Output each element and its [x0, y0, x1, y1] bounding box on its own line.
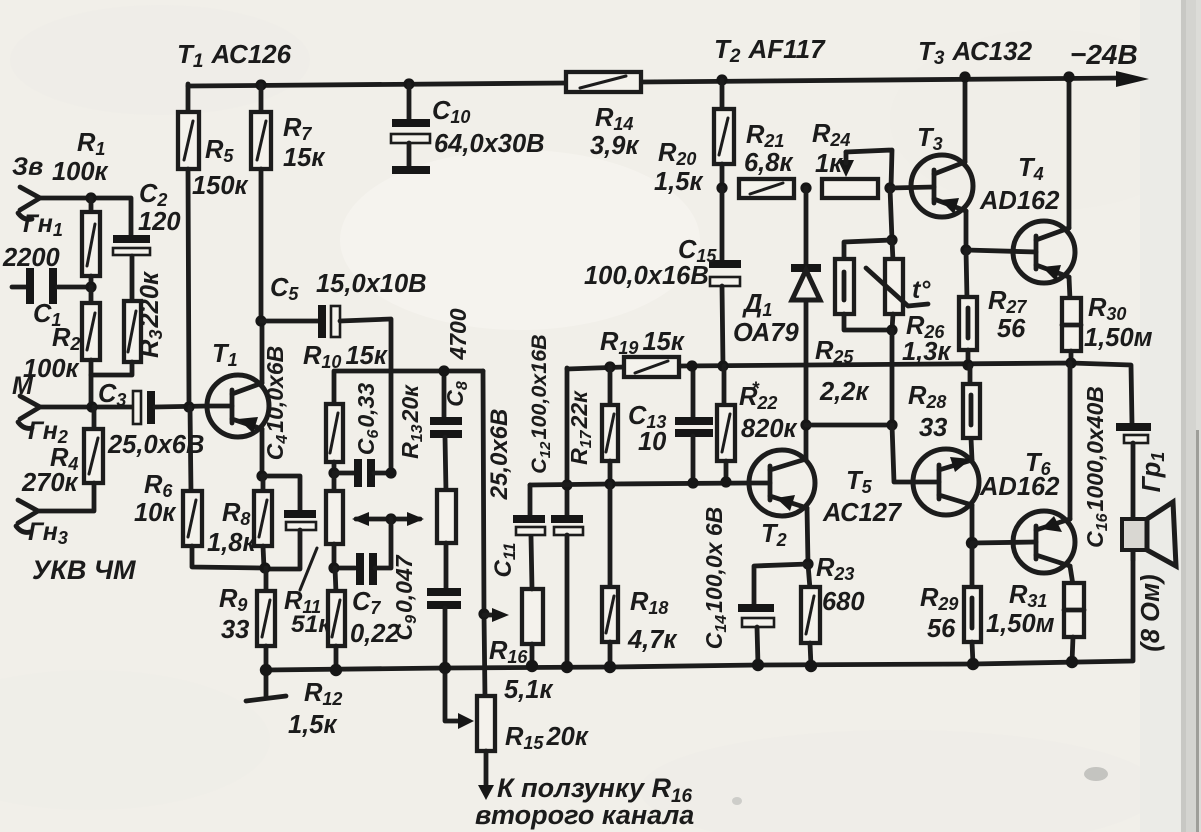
resistor R23	[801, 564, 820, 666]
node: junction R1 top	[85, 192, 96, 203]
wire: mid feedback bus	[567, 367, 624, 369]
svg-text:R1015к: R1015к	[303, 342, 388, 372]
wire: T2 emitter down	[807, 508, 808, 564]
svg-text:4700: 4700	[445, 308, 471, 360]
node: junction C13 bottom	[687, 477, 698, 488]
node: rail junction T4	[1063, 71, 1074, 82]
svg-text:10к: 10к	[134, 499, 176, 527]
wire: bias chain to T2 collector	[890, 330, 895, 425]
svg-text:1,50м: 1,50м	[986, 610, 1055, 638]
node: junction R24/T3 base	[884, 182, 895, 193]
svg-text:второго канала: второго канала	[475, 800, 694, 830]
node: junction C15/R22/bus	[717, 360, 728, 371]
resistor R28	[963, 365, 980, 438]
node: junction R16 wiper	[478, 608, 489, 619]
node: junction C13 top	[686, 360, 697, 371]
node: bus junction R9	[260, 664, 272, 676]
capacitor C14	[738, 564, 808, 665]
node: junction collector T1 / C5	[255, 315, 266, 326]
resistor R10	[326, 371, 483, 473]
resistor R5	[178, 84, 199, 407]
capacitor C5	[261, 305, 391, 473]
node: bus junction R27/R28	[962, 359, 973, 370]
resistor R24 (rheostat)	[822, 150, 892, 198]
input jack Gn1	[18, 187, 40, 219]
svg-text:15к: 15к	[283, 144, 325, 172]
svg-text:2200: 2200	[2, 244, 60, 272]
svg-text:120: 120	[138, 208, 181, 236]
svg-text:3,9к: 3,9к	[590, 132, 639, 160]
capacitor C15	[709, 188, 741, 366]
svg-text:t°: t°	[912, 276, 931, 304]
capacitor C6	[334, 459, 391, 487]
resistor R8	[254, 476, 272, 568]
node: junction R17 top	[604, 361, 615, 372]
svg-text:М: М	[12, 372, 34, 400]
wire: Gn2 to C3	[40, 405, 133, 410]
node: rail junction R20	[716, 74, 727, 85]
svg-text:33: 33	[919, 414, 947, 442]
resistor R9	[257, 568, 275, 670]
potentiometer R11	[326, 473, 343, 568]
svg-text:R1320к: R1320к	[397, 384, 426, 459]
svg-text:4,7к: 4,7к	[627, 626, 677, 654]
svg-text:1,5к: 1,5к	[654, 168, 703, 196]
node: bus junction R18	[604, 661, 616, 673]
svg-text:1,8к: 1,8к	[207, 529, 256, 557]
svg-text:С60,33: С60,33	[353, 383, 382, 456]
node: junction T3 emitter / T4 base	[960, 244, 971, 255]
wire: to T5 base	[892, 425, 913, 482]
node: junction wiper line	[385, 513, 396, 524]
svg-text:АС127: АС127	[822, 499, 903, 527]
wire: Gn1 to R1/C2	[40, 198, 131, 235]
node: junction C12/base wire	[561, 479, 572, 490]
transistor T5	[913, 449, 979, 515]
svg-text:56: 56	[997, 315, 1026, 343]
potentiometer R15	[477, 696, 495, 800]
wire: T4 collector to rail	[1067, 77, 1072, 228]
leader line R11	[300, 548, 317, 590]
node: bus junction R29	[967, 658, 979, 670]
svg-text:820к: 820к	[741, 415, 798, 443]
node: bus junction C12	[561, 661, 573, 673]
node: junction R10/R11/C6	[328, 467, 339, 478]
speaker Gr1	[1122, 502, 1176, 566]
resistor R18	[602, 484, 618, 667]
wire: T1 emitter down	[260, 429, 265, 476]
capacitor C3	[133, 391, 207, 424]
wire: T1 collector up	[260, 321, 265, 383]
resistor R2	[82, 287, 100, 407]
node: rail junction R7	[255, 79, 266, 90]
node: junction M line	[86, 401, 97, 412]
node: bus junction C14	[752, 659, 764, 671]
wire: ground bus bottom	[266, 550, 1133, 670]
node: junction R1/R2/C1	[85, 281, 96, 292]
resistor R21	[739, 179, 794, 198]
node: junction R21/R24/D1	[800, 182, 811, 193]
svg-text:64,0х30В: 64,0х30В	[434, 130, 545, 158]
node: junction emitter T1	[256, 470, 267, 481]
svg-text:15,0х10В: 15,0х10В	[316, 270, 427, 298]
capacitor C2	[113, 239, 150, 255]
svg-text:С90,047: С90,047	[391, 554, 420, 640]
resistor R31	[1064, 566, 1084, 662]
node: bus junction R31	[1066, 656, 1078, 668]
node: junction R22 bottom	[720, 476, 731, 487]
svg-text:270к: 270к	[21, 469, 79, 497]
input jack Gn2	[18, 396, 40, 428]
capacitor C10	[391, 84, 430, 170]
-24V arrowhead	[1116, 71, 1149, 87]
node: junction R25/R26 top	[886, 234, 897, 245]
node: junction R17/R18/base wire	[604, 478, 615, 489]
wire: T5 collector down	[970, 505, 975, 543]
capacitor C8	[430, 371, 462, 492]
node: junction bias/T5 base	[886, 419, 897, 430]
wire: R16 feed line	[483, 371, 485, 698]
svg-text:−24В: −24В	[1070, 39, 1138, 70]
resistor R30	[1062, 277, 1081, 363]
svg-text:АD162: АD162	[979, 473, 1059, 501]
capacitor C7	[334, 519, 391, 585]
svg-text:УКВ ЧМ: УКВ ЧМ	[32, 555, 136, 585]
capacitor C12	[551, 368, 583, 667]
svg-text:1к: 1к	[815, 150, 843, 178]
bias chain R25/R26	[890, 188, 892, 240]
svg-text:150к: 150к	[192, 172, 249, 200]
svg-text:ОА79: ОА79	[733, 319, 799, 347]
wiper arrow R15 from bus	[445, 668, 474, 729]
wire: T2 collector up	[804, 425, 809, 459]
svg-text:(8 Ом): (8 Ом)	[1137, 574, 1165, 651]
thermistor R26	[866, 240, 928, 330]
node: rail junction C10	[403, 78, 414, 89]
resistor R1	[82, 198, 100, 289]
transistor T4	[966, 221, 1075, 283]
resistor R6	[183, 407, 264, 568]
svg-text:25,0х6В: 25,0х6В	[486, 409, 513, 501]
node: bus junction C9/R15	[439, 662, 451, 674]
wiper arrow R16	[484, 608, 509, 622]
node: junction T5 collector / T6 base	[966, 537, 978, 549]
resistor R29	[964, 543, 981, 664]
node: junction base T1	[183, 401, 194, 412]
node: junction C8 top	[438, 365, 449, 376]
svg-text:2,2к: 2,2к	[819, 378, 869, 406]
diode D1	[791, 188, 821, 425]
capacitor C13	[675, 366, 713, 483]
node: bus junction R23	[805, 660, 817, 672]
svg-text:1,3к: 1,3к	[902, 338, 951, 366]
capacitor C4	[262, 476, 316, 569]
node: junction R20/R21/C15	[716, 182, 727, 193]
ground chassis symbol	[246, 670, 286, 701]
capacitor C9	[427, 592, 461, 668]
node: junction R11/C7/R12	[328, 562, 339, 573]
potentiometer R16	[522, 536, 543, 666]
node: rail junction T3	[959, 71, 970, 82]
svg-text:680: 680	[822, 588, 865, 616]
resistor R12	[328, 568, 345, 670]
wire: T6 emitter up to R30	[1068, 363, 1073, 519]
resistor R7	[251, 85, 271, 321]
svg-text:R1722к: R1722к	[566, 390, 595, 465]
resistor R27	[959, 250, 977, 365]
wire: T2 collector to bias bottom	[806, 423, 892, 428]
transistor T1	[207, 375, 269, 437]
wire: T2 base line	[530, 483, 749, 485]
svg-text:100,0х16В: 100,0х16В	[584, 262, 709, 290]
wiper arrows R11/R13	[352, 512, 424, 526]
node: junction R25/R26 bottom	[886, 324, 897, 335]
capacitor C16	[1116, 427, 1151, 560]
svg-text:100к: 100к	[52, 158, 109, 186]
node: bus junction R30	[1065, 357, 1076, 368]
wire: top supply rail	[188, 78, 1125, 86]
resistor R14	[566, 72, 641, 92]
svg-text:Зв: Зв	[12, 153, 43, 181]
node: junction C6 right	[385, 467, 396, 478]
svg-text:6,8к: 6,8к	[744, 149, 793, 177]
resistor R17	[602, 367, 618, 484]
resistor R19	[624, 357, 679, 377]
wire: T3 collector to rail	[963, 77, 968, 162]
svg-text:1,50м: 1,50м	[1084, 324, 1153, 352]
resistor R3	[91, 256, 141, 375]
svg-text:R1520к: R1520к	[505, 723, 589, 753]
capacitor C11	[513, 485, 545, 535]
transistor T3	[890, 155, 973, 217]
svg-text:10: 10	[638, 428, 666, 456]
resistor R22	[717, 366, 735, 482]
wire: T3 emitter down	[964, 211, 969, 250]
resistor R20	[714, 80, 734, 188]
svg-text:R1915к: R1915к	[600, 328, 685, 358]
transistor T2	[749, 450, 815, 516]
node: junction R6/R8/R9/C4	[259, 562, 270, 573]
node: junction T2 collector	[800, 419, 811, 430]
input jack Gn3	[16, 500, 38, 532]
svg-text:5,1к: 5,1к	[504, 676, 553, 704]
node: bus junction R12	[330, 664, 342, 676]
transistor T6	[972, 511, 1075, 573]
resistor R25	[835, 240, 892, 330]
wire: T5 emitter to R28	[971, 438, 972, 460]
svg-text:R3220к: R3220к	[136, 271, 166, 358]
svg-text:56: 56	[927, 615, 956, 643]
resistor R4	[38, 407, 103, 511]
svg-text:АD162: АD162	[979, 187, 1059, 215]
node: bus junction R16	[526, 660, 538, 672]
svg-text:33: 33	[221, 616, 249, 644]
svg-text:1,5к: 1,5к	[288, 711, 337, 739]
capacitor C1	[12, 268, 88, 304]
potentiometer R13	[437, 490, 456, 590]
node: junction T2 emitter	[802, 558, 813, 569]
